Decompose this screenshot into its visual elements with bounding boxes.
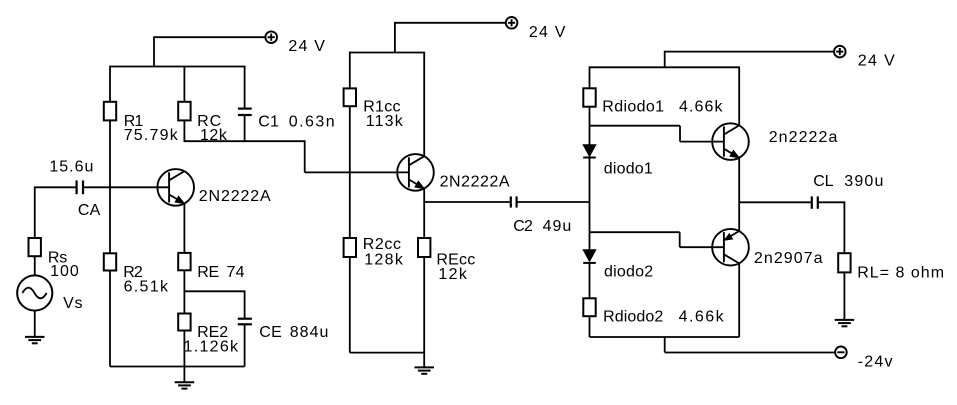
ground (stage 2) bbox=[415, 367, 435, 373]
wire REcc to bottom rail bbox=[423, 257, 425, 353]
svg-text:4.66k: 4.66k bbox=[679, 309, 725, 326]
wire R2cc to bottom rail bbox=[349, 257, 351, 353]
wire drop to stage-3 rail bbox=[664, 51, 666, 68]
wire CE to bottom rail bbox=[244, 325, 246, 367]
ground (stage 1) bbox=[175, 382, 195, 388]
transistor Q2 2N2222A bbox=[397, 154, 434, 191]
svg-text:74: 74 bbox=[227, 264, 245, 281]
stage-3 top rail bbox=[590, 66, 740, 68]
wire from P3 to stage-3 rail drop bbox=[665, 51, 834, 53]
resistor R2 bbox=[104, 253, 116, 270]
wire collector node horizontal bbox=[184, 140, 305, 142]
wire Q4 collector to bottom rail bbox=[738, 263, 740, 337]
svg-text:6.51k: 6.51k bbox=[124, 279, 169, 296]
wire CA to Q1 base bbox=[84, 186, 170, 188]
diode diodo1 bbox=[583, 145, 596, 158]
svg-text:2N2222A: 2N2222A bbox=[199, 188, 271, 205]
svg-text:Rdiodo1: Rdiodo1 bbox=[602, 98, 664, 115]
svg-text:49u: 49u bbox=[543, 218, 572, 235]
wire rail to C1 bbox=[244, 66, 246, 109]
power -24v symbol P4 bbox=[835, 347, 847, 359]
svg-text:24 V: 24 V bbox=[529, 24, 566, 41]
wire rail to RC bbox=[183, 66, 185, 102]
svg-text:RE: RE bbox=[197, 264, 219, 281]
ground (RL) bbox=[835, 320, 855, 326]
wire to Q3 base bbox=[680, 141, 724, 143]
diode diodo2 bbox=[583, 250, 596, 263]
wire drop to stage-2 rail bbox=[394, 22, 396, 53]
resistor Rs bbox=[29, 238, 41, 256]
svg-text:390u: 390u bbox=[844, 173, 883, 190]
wire emitter node to C2 bbox=[424, 201, 510, 203]
wire down to RL bbox=[843, 201, 845, 253]
wire CL to RL corner bbox=[818, 201, 844, 203]
wire RC bottom to collector node bbox=[183, 120, 185, 141]
svg-text:0.63n: 0.63n bbox=[289, 113, 335, 130]
wire RE2 to bottom rail bbox=[183, 331, 185, 367]
wire Rs to Vs bbox=[34, 256, 36, 275]
svg-text:diodo2: diodo2 bbox=[604, 263, 653, 280]
wire CE branch down to plate bbox=[244, 290, 246, 318]
wire to Q2 base bbox=[305, 171, 409, 173]
wire C1 bottom to collector node bbox=[244, 116, 246, 142]
svg-text:diodo1: diodo1 bbox=[604, 161, 653, 178]
svg-text:128k: 128k bbox=[364, 251, 404, 268]
wire R1cc to R2cc column bbox=[349, 106, 351, 238]
svg-text:2N2222A: 2N2222A bbox=[440, 173, 510, 190]
wire RL to ground bbox=[843, 272, 845, 320]
wire from P2 to stage-2 rail drop bbox=[395, 22, 506, 24]
wire base node down to R2 bbox=[109, 186, 111, 253]
wire bottom rail step down bbox=[664, 337, 666, 353]
capacitor CE bbox=[238, 319, 252, 325]
svg-text:1.126k: 1.126k bbox=[184, 339, 240, 356]
svg-text:884u: 884u bbox=[290, 324, 329, 341]
svg-text:12k: 12k bbox=[438, 266, 467, 283]
stage-1 bottom rail bbox=[110, 366, 245, 368]
wire junction to CE branch bbox=[184, 290, 245, 292]
stage-3 bottom rail bbox=[590, 336, 740, 338]
source Vs bbox=[17, 275, 52, 310]
capacitor CL bbox=[812, 196, 818, 208]
svg-text:Rdiodo2: Rdiodo2 bbox=[603, 309, 663, 326]
svg-text:24 V: 24 V bbox=[288, 38, 325, 55]
wire Q3 emitter to output node and Q4 emitter bbox=[738, 158, 740, 231]
stage-2 top rail bbox=[350, 52, 424, 54]
resistor Rdiodo2 bbox=[583, 298, 595, 316]
wire rail to R1 bbox=[109, 66, 111, 102]
wire C2 to diode column bbox=[517, 201, 589, 203]
svg-text:2n2222a: 2n2222a bbox=[769, 129, 838, 146]
resistor RE bbox=[178, 253, 190, 270]
wire Q1 emitter to RE bbox=[183, 204, 185, 253]
wire ground stem stage 1 bbox=[183, 367, 185, 383]
svg-text:RL= 8 ohm: RL= 8 ohm bbox=[857, 265, 944, 282]
resistor RL bbox=[838, 253, 850, 272]
wire Q4 base tap horizontal bbox=[590, 231, 680, 233]
resistor Rdiodo1 bbox=[583, 88, 595, 106]
transistor Q1 2N2222A bbox=[157, 169, 194, 206]
svg-text:100: 100 bbox=[50, 263, 79, 280]
capacitor C1 bbox=[238, 109, 252, 115]
power +24V symbol P3 (stage 3) bbox=[834, 46, 846, 58]
resistor REcc bbox=[418, 238, 430, 257]
svg-text:Vs: Vs bbox=[63, 295, 83, 312]
resistor RC bbox=[178, 102, 190, 121]
wire Q2 emitter down bbox=[423, 189, 425, 238]
wire Rdiodo2 to bottom rail bbox=[589, 316, 591, 337]
svg-text:R2cc: R2cc bbox=[363, 236, 402, 253]
wire Vs to ground bbox=[34, 311, 36, 337]
resistor R2cc bbox=[344, 238, 356, 257]
wire Q4 base tap drop bbox=[679, 232, 681, 247]
transistor Q4 2n2907a bbox=[712, 229, 749, 266]
wire from P1 to stage-1 rail drop bbox=[154, 36, 265, 38]
wire rail to Rdiodo1 bbox=[589, 66, 591, 88]
wire rail to Q2 collector bbox=[423, 52, 425, 157]
wire Rdiodo1 to diodo1 bbox=[589, 107, 591, 145]
svg-text:75.79k: 75.79k bbox=[124, 127, 179, 144]
resistor RE2 bbox=[178, 314, 190, 331]
capacitor C2 bbox=[511, 196, 517, 207]
resistor R1 bbox=[104, 102, 116, 121]
wire Q3 base tap drop bbox=[679, 126, 681, 142]
svg-text:113k: 113k bbox=[366, 113, 404, 130]
wire Q3 base tap horizontal bbox=[590, 125, 681, 127]
svg-text:4.66k: 4.66k bbox=[679, 98, 723, 115]
stage-1 top rail bbox=[110, 66, 245, 68]
wire diodo1 to diodo2 (through C2 node and Q4 base tap) bbox=[589, 158, 591, 250]
svg-text:-24v: -24v bbox=[858, 354, 893, 371]
svg-text:24 V: 24 V bbox=[858, 52, 895, 69]
wire ground stem stage 2 bbox=[423, 353, 425, 368]
stage-2 bottom rail bbox=[350, 352, 424, 354]
svg-text:C1: C1 bbox=[258, 113, 279, 130]
wire R1 bottom to base node bbox=[109, 120, 111, 188]
resistor R1cc bbox=[344, 88, 356, 106]
wire to Q4 base bbox=[680, 246, 724, 248]
ground (Vs) bbox=[25, 337, 45, 343]
wire rail to R1cc bbox=[349, 52, 351, 89]
capacitor CA bbox=[77, 180, 83, 194]
wire output node to CL bbox=[739, 201, 811, 203]
wire to -24v symbol bbox=[665, 352, 836, 354]
wire left column down to Rs bbox=[34, 186, 36, 238]
wire step down to Q2 base level bbox=[304, 140, 306, 172]
wire source column to CA bbox=[35, 186, 76, 188]
wire R2 to bottom rail bbox=[109, 271, 111, 367]
wire Q3 collector to rail bbox=[738, 66, 740, 125]
svg-text:2n2907a: 2n2907a bbox=[754, 250, 823, 267]
wire RE bottom through junction to RE2 bbox=[183, 270, 185, 313]
wire diodo2 to Rdiodo2 bbox=[589, 263, 591, 298]
svg-text:CE: CE bbox=[259, 324, 282, 341]
svg-text:CL: CL bbox=[813, 173, 834, 190]
power +24V symbol P2 (stage 2) bbox=[506, 17, 518, 29]
transistor Q3 2n2222a bbox=[712, 123, 749, 160]
wire drop to stage-1 rail bbox=[153, 36, 155, 66]
svg-text:15.6u: 15.6u bbox=[49, 158, 93, 175]
svg-text:C2: C2 bbox=[513, 218, 533, 235]
power +24V symbol P1 (stage 1) bbox=[265, 31, 277, 43]
svg-text:CA: CA bbox=[78, 202, 101, 219]
